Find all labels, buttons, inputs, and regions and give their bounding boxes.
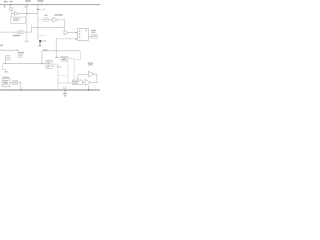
node arrowhead into box F top (77, 79, 78, 80)
wire tiny squiggle x44 (44, 8, 45, 11)
bottom ground bus wire (0, 89, 100, 91)
op-amp U2 XOR comparator (53, 18, 57, 23)
op-amp U1 (15, 12, 19, 16)
wire run y50.8 (42, 50, 80, 52)
node arrowhead on x26.9 drop (26, 6, 27, 7)
wire vertical x58 to ground bus (57, 64, 59, 90)
wire input line 2 left (0, 49, 17, 51)
node junction dot ground tap (64, 89, 65, 90)
wire box C bottom tap (67, 61, 69, 83)
label box F line1 (73, 81, 79, 82)
label inside box T (19, 55, 22, 56)
label Vref (37, 0, 43, 2)
node junction on bus x26.9 (26, 4, 27, 5)
wire into box C (56, 56, 61, 58)
node junction dot x26.8 (26, 13, 27, 14)
label inside box A line2 (13, 20, 18, 21)
label box B line4 (47, 66, 50, 67)
ground (63, 90, 67, 97)
wire branch y9.2 from x37.9 dot (38, 8, 45, 10)
box J small input block (10, 8, 13, 11)
label MSB above box T (18, 52, 25, 53)
wire R1 to comparator (19, 31, 21, 33)
label beside Q1 (42, 40, 46, 41)
wire data run y38.9 (56, 38, 76, 40)
wire feedback top run (78, 74, 88, 76)
op-amp U3 comparator (21, 30, 25, 34)
node arrowhead into box H pin2 (76, 38, 78, 40)
label box D line2 (3, 82, 7, 83)
capacitor C1 plate2 (39, 46, 41, 48)
wire feedback run y27.3 (32, 27, 65, 32)
label XOR Comparator (54, 14, 63, 15)
node junction dot x41.9 y63.6 (41, 63, 42, 64)
label inside box E (13, 82, 16, 84)
label inside box H top (85, 30, 87, 31)
node arrowhead input 2 (17, 49, 18, 51)
node junction dot x88.7 bus (88, 89, 89, 90)
node junction dot x37.9 y9.3 (37, 9, 39, 11)
op-amp U6 top right (88, 71, 95, 76)
box D clock generator (2, 79, 10, 87)
label comparator (13, 35, 20, 36)
label digital output line2 (91, 32, 95, 33)
wire U3 output (24, 31, 31, 33)
label box F line2 (73, 83, 78, 84)
wire corner down to box B (41, 51, 43, 64)
box F driver (72, 80, 82, 84)
wire analog input line y32 (0, 31, 17, 33)
box S staircase generator (6, 56, 10, 60)
pin circle 1 (79, 31, 80, 32)
label box B line3 (47, 65, 51, 66)
label box C line1 (62, 57, 67, 58)
box E (13, 81, 18, 85)
wire run into box F y83 (58, 82, 72, 84)
wire box F to op-amp U5 (82, 81, 85, 83)
label above box D (3, 77, 9, 78)
wire DAC run y63.7 (3, 63, 46, 65)
resistor R1 inline box (17, 31, 19, 34)
label Vcc (25, 0, 31, 2)
node tick crossing bus x41.7 (41, 3, 43, 6)
wire box S down (5, 60, 7, 64)
wire zigzag right down (74, 51, 80, 80)
wire vertical drop x26.9 (26, 5, 28, 40)
wire box B output (52, 63, 58, 65)
label digital output line1 (91, 30, 96, 31)
node junction dot x56.2 y57.2 (56, 57, 57, 58)
label inside box G (45, 19, 48, 20)
capacitor C1 plate1 (39, 44, 42, 46)
label inside box I (92, 36, 97, 37)
wire box D to box E (10, 81, 13, 83)
wire box H to box I (89, 35, 92, 37)
wire box G to XOR comparator (48, 19, 53, 21)
wire vertical x56.2 (55, 39, 57, 57)
label above run y50.8 (43, 49, 47, 50)
wire box D bottom to bus (5, 87, 7, 91)
wire box E to bus (18, 82, 21, 90)
label box D line1 (3, 80, 8, 81)
node junction on bus x37.9 (37, 4, 38, 5)
node arrowhead into box H pin1 (76, 32, 78, 34)
component small box above ground bus (63, 87, 67, 88)
box G (44, 18, 48, 22)
label inside box S (6, 57, 9, 59)
op-amp U4 (64, 30, 68, 35)
label amplified output line2 (88, 64, 92, 65)
label inside box J (10, 8, 12, 9)
wire staircase step down (3, 64, 7, 73)
label input 2 (0, 45, 3, 47)
label box B line2 (47, 63, 51, 64)
label inside box A line1 (13, 18, 20, 19)
label 4T4 above box G (44, 15, 47, 16)
wire bus tap down (10, 5, 12, 8)
label box C line2 (62, 59, 66, 60)
grouping outline faint (58, 75, 68, 83)
node junction on bus x10.7 (10, 4, 11, 5)
op-amp U5 (85, 79, 91, 85)
pin circle 2 (79, 33, 80, 34)
label Vin1 (4, 1, 8, 2)
label box D line3 (3, 84, 8, 85)
wire stub above corner x31.6 (31, 25, 33, 28)
box B counter (46, 60, 52, 68)
box A summing amplifier (11, 17, 26, 24)
wire U2 output (57, 20, 65, 27)
wire box A input (10, 13, 12, 17)
wire U4 output (68, 32, 76, 34)
label amplified output line1 (88, 63, 94, 64)
box I (91, 35, 98, 39)
wire U5 output (91, 81, 98, 83)
label Vin2 (10, 1, 13, 2)
wire Q1 to capacitor (39, 42, 41, 45)
label error signal (23, 6, 26, 7)
wire branch y35.7 (38, 35, 46, 37)
wire box C output (68, 58, 75, 60)
wire U1 output (19, 12, 38, 14)
transistor Q1 dark body (39, 40, 41, 42)
node stub arrow at x4.8 (4, 5, 5, 8)
label staircase (4, 71, 8, 72)
label box B line1 (47, 61, 51, 62)
wire box B second output (52, 65, 58, 67)
wire into box G (38, 19, 44, 21)
label below box C (57, 67, 61, 68)
box H output register (77, 29, 88, 41)
box C sample hold (61, 56, 67, 61)
wire top supply bus (0, 4, 100, 6)
wire box J to op-amp U1 (11, 10, 14, 13)
node junction dot x20.8 bus (20, 89, 21, 90)
node junction dot x58 y83 (58, 83, 59, 84)
pin circle 3 (79, 36, 80, 37)
label under drop x26.9 (25, 41, 29, 42)
wire U5 down to ground bus (88, 86, 90, 90)
box T (18, 54, 22, 57)
wire feedback down into box F (77, 75, 79, 79)
wire vertical drop x37.9 (37, 5, 39, 41)
wire riser from U5 output up (95, 74, 97, 82)
